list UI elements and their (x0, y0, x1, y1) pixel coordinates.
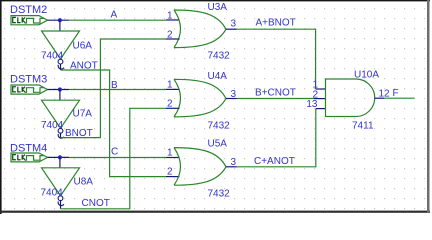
border left (0, 0, 2, 214)
wire F (384, 97, 415, 99)
svg-text:C: C (111, 147, 118, 158)
border bottom (0, 211, 430, 213)
svg-text:U3A: U3A (208, 2, 228, 13)
svg-text:1: 1 (167, 11, 173, 22)
svg-text:U4A: U4A (208, 71, 228, 82)
pin 1 of U4A (166, 88, 180, 90)
svg-text:7432: 7432 (208, 189, 231, 200)
wire A (69, 19, 166, 21)
svg-text:2: 2 (167, 167, 173, 178)
pin 1 of DSTM2 (48, 19, 70, 21)
border top (0, 0, 430, 1)
pin 3 out of U4A (226, 98, 237, 100)
svg-text:1: 1 (167, 80, 173, 91)
wire A+BNOT (237, 29, 316, 89)
pin out of U6A (60, 64, 62, 70)
pin in of U6A (59, 20, 61, 31)
svg-text:DSTM3: DSTM3 (10, 74, 47, 86)
svg-text:C+ANOT: C+ANOT (254, 156, 295, 167)
pin 1 of U5A (166, 157, 180, 159)
hook at U6A output (58, 65, 64, 69)
or-gate U5A (174, 139, 230, 200)
inverter U8A (41, 168, 94, 201)
junction node A (58, 18, 62, 22)
svg-text:U5A: U5A (208, 139, 228, 150)
wire B+CNOT (237, 98, 315, 100)
svg-text:U7A: U7A (73, 109, 93, 120)
border right (427, 0, 430, 213)
svg-text:A+BNOT: A+BNOT (256, 17, 296, 28)
svg-text:B: B (111, 80, 118, 91)
stimulus DSTM4 (10, 142, 48, 162)
pin 2 of U3A wire (166, 38, 180, 40)
wire C+ANOT (237, 109, 316, 167)
pin 1 of DSTM3 (48, 89, 70, 91)
pin 2 of U4A stub (166, 107, 180, 109)
hook at U7A output (58, 134, 64, 138)
inverter U7A (41, 100, 92, 133)
pin 2 of U10A (314, 98, 326, 100)
pin 1 of U3A (166, 19, 180, 21)
svg-text:U10A: U10A (354, 69, 379, 80)
wire C (69, 157, 166, 159)
svg-text:13: 13 (306, 99, 318, 110)
svg-text:1: 1 (167, 147, 173, 158)
svg-text:7411: 7411 (352, 120, 374, 131)
wire B (69, 89, 166, 91)
pin 2 of U5A (166, 176, 180, 178)
pin 3 out of U5A (226, 166, 237, 168)
svg-text:DSTM2: DSTM2 (10, 4, 47, 16)
wire CNOT (61, 108, 167, 209)
stimulus DSTM2 (10, 4, 48, 25)
pin 3 out of U3A (226, 28, 237, 30)
inverter U6A (41, 31, 92, 64)
pin 13 of U10A (316, 108, 326, 110)
svg-text:3: 3 (231, 19, 237, 30)
svg-text:F: F (393, 88, 399, 99)
pin out of U8A (60, 201, 62, 209)
svg-text:B+CNOT: B+CNOT (255, 87, 296, 98)
wire ANOT (61, 70, 167, 177)
hook at U8A output (58, 201, 64, 205)
svg-text:7404: 7404 (41, 120, 64, 131)
svg-text:7432: 7432 (208, 121, 231, 132)
svg-text:A: A (111, 10, 118, 21)
svg-text:7404: 7404 (41, 51, 64, 62)
and-gate U10A (326, 69, 380, 131)
or-gate U4A (174, 71, 230, 131)
svg-text:7404: 7404 (41, 187, 64, 198)
pin 1 of DSTM4 (48, 156, 70, 158)
svg-text:U6A: U6A (73, 40, 93, 51)
pin in of U8A (59, 157, 61, 168)
junction node B (58, 87, 62, 91)
pin 12 out of U10A (375, 97, 385, 99)
svg-text:U8A: U8A (74, 177, 94, 188)
junction node C (58, 155, 62, 159)
svg-text:7432: 7432 (208, 51, 231, 62)
pin out of U7A (60, 133, 62, 137)
pin 1 of U10A (316, 88, 326, 90)
wire BNOT (61, 39, 167, 138)
stimulus DSTM3 (10, 74, 48, 95)
pin in of U7A (59, 90, 61, 101)
svg-text:CNOT: CNOT (82, 198, 110, 209)
or-gate U3A (174, 2, 230, 62)
